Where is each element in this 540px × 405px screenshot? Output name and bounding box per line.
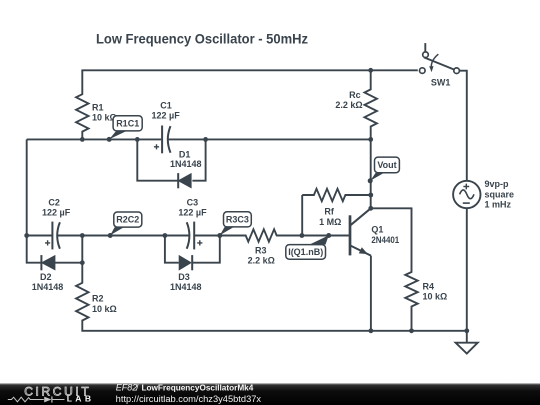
node row3 left junction <box>24 233 29 238</box>
label R3 <box>248 245 275 265</box>
node C3 left junction <box>163 233 168 238</box>
svg-text:square: square <box>485 189 515 199</box>
wire row3 mid segment <box>82 235 165 237</box>
node C1 right junction <box>203 137 208 142</box>
footer bar <box>0 383 540 405</box>
label C3 <box>178 198 207 218</box>
node Rf right junction <box>368 193 373 198</box>
resistor R1 <box>76 70 88 139</box>
resistor R4 <box>405 208 417 330</box>
svg-text:2.2 kΩ: 2.2 kΩ <box>335 100 362 110</box>
label Rf <box>319 207 341 227</box>
node Rc bottom junction <box>368 137 373 142</box>
wire left riser <box>26 139 28 235</box>
flag R1C1 <box>109 116 142 140</box>
svg-text:122 µF: 122 µF <box>178 208 207 218</box>
wire emitter drop <box>370 256 372 331</box>
svg-text:LowFrequencyOscillatorMk4: LowFrequencyOscillatorMk4 <box>142 383 254 393</box>
svg-text:Low Frequency Oscillator - 50m: Low Frequency Oscillator - 50mHz <box>96 32 308 47</box>
svg-text:R1C1: R1C1 <box>116 118 139 128</box>
footer EF82 text <box>116 383 254 393</box>
flag R2C2 <box>110 212 142 235</box>
svg-text:R1: R1 <box>92 103 104 113</box>
wire Vout riser <box>370 139 372 208</box>
svg-text:Q1: Q1 <box>371 225 383 235</box>
svg-text:1 MΩ: 1 MΩ <box>319 217 341 227</box>
flag IQ1nB <box>286 235 329 259</box>
wire collector to R4 <box>371 207 413 209</box>
svg-text:1N4148: 1N4148 <box>170 159 202 169</box>
wire Rf left leg <box>301 195 303 236</box>
svg-text:I(Q1.nB): I(Q1.nB) <box>288 247 323 257</box>
flag Vout anchor node <box>368 178 373 183</box>
diode D2 <box>41 255 55 270</box>
diode D1 <box>178 173 191 188</box>
voltage source V1 <box>453 181 480 208</box>
label C3 plus <box>197 240 202 245</box>
svg-text:122 µF: 122 µF <box>42 208 71 218</box>
wire row2 right segment <box>206 138 371 140</box>
svg-text:R3C3: R3C3 <box>226 214 249 224</box>
logo resistor-diode symbol <box>8 396 65 402</box>
diode D2 branch wire <box>27 236 83 263</box>
svg-text:2.2 kΩ: 2.2 kΩ <box>248 255 275 265</box>
flag R3C3 <box>220 212 252 235</box>
node C1 left junction <box>135 137 140 142</box>
svg-text:10 kΩ: 10 kΩ <box>92 304 117 314</box>
resistor Rf <box>302 189 371 201</box>
diode D1 branch wire <box>137 139 205 180</box>
label D3 <box>170 272 202 292</box>
svg-text:2N4401: 2N4401 <box>371 235 399 245</box>
node emitter rail junction <box>369 328 374 333</box>
svg-text:1N4148: 1N4148 <box>32 282 64 292</box>
node R4 rail junction <box>409 328 414 333</box>
svg-text:http://circuitlab.com/chz3y45b: http://circuitlab.com/chz3y45btd37x <box>116 394 262 404</box>
wire bottom rail <box>81 330 466 332</box>
svg-text:122 µF: 122 µF <box>152 111 181 121</box>
ground <box>456 331 478 354</box>
svg-text:SW1: SW1 <box>431 78 451 88</box>
title text <box>96 32 308 47</box>
svg-text:R2: R2 <box>92 294 104 304</box>
wire source to ground rail <box>466 208 468 331</box>
resistor Rc <box>365 70 377 139</box>
resistor R3 <box>220 229 302 241</box>
svg-text:D1: D1 <box>179 149 191 159</box>
svg-text:9vp-p: 9vp-p <box>485 179 510 189</box>
svg-text:D2: D2 <box>40 272 52 282</box>
diode D3 branch wire <box>165 236 220 263</box>
capacitor C2 <box>27 222 83 250</box>
label C2 plus <box>45 240 50 245</box>
flag R1C1 anchor node <box>107 137 112 142</box>
svg-text:C3: C3 <box>187 198 199 208</box>
svg-text:R4: R4 <box>423 282 435 292</box>
label D1 <box>170 149 202 169</box>
node ground rail junction <box>464 328 469 333</box>
wire top rail <box>81 69 417 71</box>
label C2 <box>42 198 71 218</box>
node D2 right junction <box>80 260 85 265</box>
label D2 <box>32 272 64 292</box>
flag R2C2 anchor node <box>108 233 113 238</box>
svg-text:D3: D3 <box>178 272 190 282</box>
svg-text:1N4148: 1N4148 <box>170 282 202 292</box>
label SW1 <box>431 78 451 88</box>
wire row3 base segment <box>302 235 349 237</box>
svg-text:EF82: EF82 <box>116 383 138 393</box>
node R1 bottom <box>80 137 85 142</box>
flag R3C3 anchor node <box>217 233 222 238</box>
label C1 <box>152 101 181 121</box>
svg-text:Vout: Vout <box>377 160 396 170</box>
wire row2 left segment <box>27 138 138 140</box>
label Q1 <box>371 225 399 245</box>
svg-text:R2C2: R2C2 <box>116 215 139 225</box>
switch SW1 <box>420 43 460 73</box>
flag IQ1nB anchor node <box>326 233 331 238</box>
resistor R2 <box>76 263 88 331</box>
transistor Q1 <box>349 208 371 255</box>
wire switch to source <box>459 71 466 181</box>
node Rf left junction <box>300 233 305 238</box>
label V1 <box>485 179 515 210</box>
diode D3 <box>179 255 192 270</box>
label R4 <box>423 282 448 302</box>
svg-text:LAB: LAB <box>67 394 91 404</box>
node Rc top junction <box>368 68 373 73</box>
label C1 plus <box>154 144 159 149</box>
footer url text <box>116 394 262 404</box>
svg-text:C2: C2 <box>48 198 60 208</box>
label R2 <box>92 294 117 314</box>
svg-text:R3: R3 <box>255 245 267 255</box>
svg-text:10 kΩ: 10 kΩ <box>423 292 448 302</box>
logo LAB text <box>67 394 91 404</box>
node collector junction <box>368 206 373 211</box>
node C2 right junction <box>80 233 85 238</box>
svg-text:Rc: Rc <box>349 90 361 100</box>
label R1 <box>92 103 117 123</box>
label Rc <box>335 90 362 110</box>
svg-text:1 mHz: 1 mHz <box>485 200 512 210</box>
svg-text:Rf: Rf <box>324 207 334 217</box>
capacitor C3 <box>165 222 220 250</box>
logo CIRCUIT text <box>24 385 89 399</box>
svg-text:C1: C1 <box>160 101 172 111</box>
capacitor C1 <box>137 126 205 154</box>
flag Vout <box>370 157 399 181</box>
